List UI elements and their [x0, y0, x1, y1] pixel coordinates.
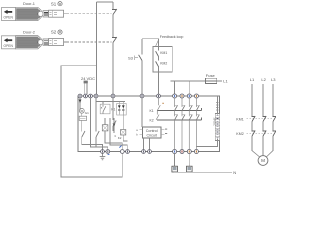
svg-text:Door-2: Door-2: [23, 29, 35, 34]
interior: redundancy box with diodes K1 K2: [117, 104, 127, 116]
contactor KM1 main contacts: [236, 116, 276, 122]
svg-text:G1: G1: [85, 111, 89, 115]
interior: supply block G1: [79, 108, 84, 113]
wire: coil common to N: [175, 171, 232, 173]
contactor KM2 main contacts: [236, 131, 276, 137]
interior: input arrow at A1: [79, 98, 81, 110]
svg-text:K1: K1: [150, 109, 154, 113]
control circuit box: [136, 127, 167, 138]
24 VDC supply symbol: [84, 81, 88, 94]
wire: phase L3: [272, 84, 274, 151]
door switch S1 assembly (Door-1): [2, 1, 64, 21]
feedback loop box: [153, 35, 183, 72]
wire: branch to 0V return: [61, 66, 122, 177]
wire: S3 to feedback loop: [142, 39, 159, 47]
S1 label: [51, 1, 62, 6]
wire: phase L2: [262, 84, 264, 155]
terminals top row (A1 A2 PE T11 T12 T21 T22 13 23 33 41 51): [78, 94, 198, 98]
wire: control circuit to bottom terminals: [144, 138, 150, 150]
contact S1 (door-1 operated): [113, 9, 117, 15]
svg-text:36VDC: 36VDC: [213, 118, 217, 126]
interior: wire + contact below S4: [82, 113, 103, 149]
svg-text:S2: S2: [51, 30, 57, 35]
wire: phase L1: [251, 84, 253, 151]
interior: relay coil K1: [102, 125, 108, 131]
interior: block S4: [79, 116, 86, 120]
svg-text:S3: S3: [128, 55, 134, 60]
svg-text:Circuit: Circuit: [146, 133, 156, 137]
svg-text:OPEN: OPEN: [4, 16, 14, 20]
svg-text:Fuse: Fuse: [206, 73, 216, 78]
terminal number glyphs: [80, 95, 197, 153]
interior: diode branch: [110, 118, 127, 150]
wire: fuse line taps to terminals 13 and 33: [175, 81, 190, 94]
interior: monitored contact box a: [100, 104, 110, 114]
svg-text:L2: L2: [261, 77, 266, 82]
svg-text:L1: L1: [250, 77, 255, 82]
wire (mechanical link) Door-1 to contact S1: [64, 13, 67, 15]
interior: relay coil K2: [121, 130, 126, 136]
wire: left channel bus T11: [96, 2, 98, 94]
safety relay unit box: [78, 96, 220, 152]
interior: wire from T3 to bottom: [91, 98, 108, 150]
fuse F1: [171, 73, 229, 84]
S2 label: [51, 30, 62, 35]
contactor coil KM2: [187, 154, 193, 173]
svg-text:M: M: [261, 158, 265, 163]
svg-text:K1: K1: [111, 108, 115, 112]
svg-text:Control: Control: [146, 129, 158, 133]
wire: T6 to control circuit: [141, 98, 143, 127]
svg-text:K2: K2: [150, 118, 154, 122]
ground symbol at PE terminal: [100, 153, 106, 159]
reset switch S3: [128, 39, 142, 94]
svg-text:N: N: [233, 170, 236, 175]
svg-text:KM2: KM2: [236, 132, 243, 136]
interior: link wire T12-T21: [96, 102, 125, 105]
contactor coil KM1: [172, 154, 178, 173]
svg-text:Door-1: Door-1: [23, 1, 35, 6]
wire: 51 terminal to strip: [216, 96, 218, 115]
svg-text:KM1: KM1: [236, 117, 243, 121]
wire: strip to bottom terminal: [196, 139, 217, 147]
wire: right channel bus T21 with contacts: [112, 2, 114, 94]
svg-text:K2: K2: [118, 136, 122, 140]
svg-text:L3: L3: [271, 77, 276, 82]
interior: wire from T4 with contact: [95, 98, 97, 147]
blue wire-number tick: [119, 145, 121, 147]
contact S2 (door-2 operated): [113, 37, 117, 43]
svg-text:KM2: KM2: [160, 61, 167, 65]
svg-text:24 VDC: 24 VDC: [81, 76, 95, 81]
svg-text:KM1: KM1: [160, 51, 167, 55]
motor M: [258, 156, 268, 166]
output channel wires with K1/K2 contacts: [175, 98, 197, 150]
terminals bottom row: [101, 150, 199, 154]
svg-text:OPEN: OPEN: [4, 44, 14, 48]
wire: top link between buses: [97, 1, 114, 3]
contact KM1 (feedback): [156, 47, 168, 61]
contact KM2 (feedback): [156, 61, 168, 94]
svg-text:L1: L1: [223, 78, 228, 83]
terminal strip block: [213, 103, 220, 141]
interior: wire from T21: [112, 98, 114, 131]
door switch S2 assembly (Door-2): [2, 29, 64, 49]
svg-text:Feedback loop: Feedback loop: [160, 35, 184, 39]
wire (mechanical link) Door-2 to contact S2: [64, 41, 67, 43]
svg-text:S1: S1: [51, 1, 57, 6]
